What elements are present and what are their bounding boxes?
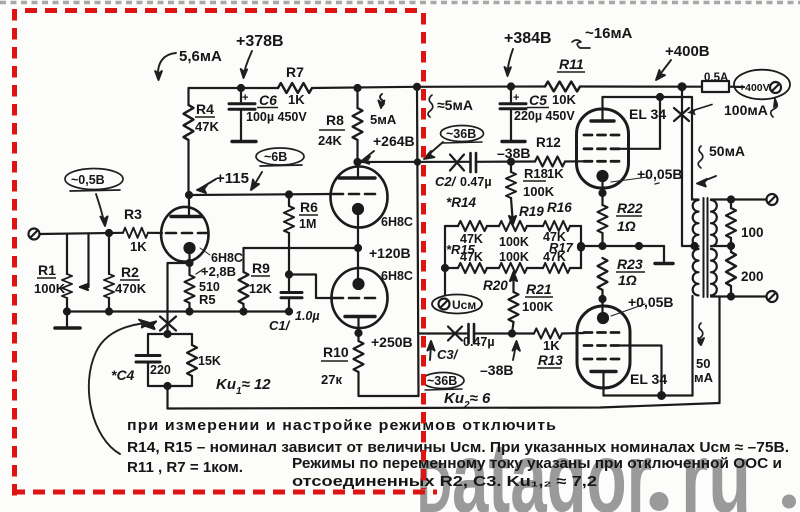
node y162-R8 bbox=[355, 159, 361, 165]
oval ~36B bottom bbox=[422, 373, 464, 389]
red frame right side bbox=[421, 13, 426, 489]
svg-text:1K: 1K bbox=[288, 92, 305, 107]
svg-text:EL 34: EL 34 bbox=[630, 371, 667, 387]
node secondary bottom bbox=[728, 294, 734, 300]
curved arrow 5,6mA bbox=[158, 53, 176, 77]
capacitor C5 220u 450V bbox=[510, 87, 512, 102]
V2b cathode wire bbox=[357, 317, 359, 342]
resistor 15K cathode bbox=[168, 334, 193, 345]
svg-text:C2/: C2/ bbox=[435, 174, 457, 189]
EL34-2 plate bar bbox=[591, 370, 616, 373]
wire R1 to ground rail bbox=[66, 298, 68, 312]
node rail R9 bbox=[241, 309, 247, 315]
pointer +2,8B bbox=[196, 268, 205, 274]
resistor network bottom chain bbox=[445, 267, 458, 269]
oval ~6B bbox=[256, 148, 304, 165]
squiggle 5mA left of C5 bbox=[428, 95, 433, 117]
red dashed frame bbox=[13, 9, 437, 496]
V2a anode wire bbox=[357, 162, 359, 178]
svg-text:R22: R22 bbox=[617, 200, 643, 216]
svg-text:1K: 1K bbox=[543, 338, 560, 353]
node rail-R8 bbox=[355, 85, 361, 91]
arrow ~36B to junction bbox=[427, 142, 443, 156]
pointer +0,05B upper bbox=[611, 177, 648, 182]
V2a cathode wire to +120B node bbox=[357, 213, 359, 280]
R1 wiper wire bbox=[80, 233, 89, 287]
terminal +400V bbox=[770, 82, 781, 93]
svg-text:+120B: +120B bbox=[369, 245, 411, 261]
fuse 0.5A bbox=[702, 81, 729, 92]
resistor R1 100K pot bbox=[62, 274, 72, 298]
R18 wiper wire to chain bbox=[511, 198, 513, 218]
V2b anode dot bbox=[354, 279, 364, 289]
node network right bbox=[578, 245, 584, 251]
arrow from +378B to rail bbox=[244, 51, 253, 76]
svg-text:R12: R12 bbox=[536, 135, 561, 150]
arrow +384B down bbox=[508, 49, 514, 73]
svg-text:27к: 27к bbox=[321, 372, 342, 387]
+400V hand-drawn oval bbox=[734, 70, 790, 100]
node y246 mid bbox=[636, 243, 642, 249]
wire input to grid node bbox=[40, 233, 124, 234]
squiggle 50mA bbox=[698, 146, 703, 168]
red frame bottom side bbox=[13, 490, 437, 495]
svg-text:0.47µ: 0.47µ bbox=[460, 175, 492, 189]
svg-text:100: 100 bbox=[741, 225, 764, 240]
svg-text:100K: 100K bbox=[34, 281, 66, 296]
node C1 bottom rail bbox=[286, 309, 292, 315]
resistor R21 100K bbox=[509, 292, 519, 322]
EL34-2 grid dashes g2 bbox=[584, 344, 620, 347]
svg-text:50: 50 bbox=[696, 356, 710, 371]
node network left bbox=[442, 265, 448, 271]
svg-text:+2,8B: +2,8B bbox=[201, 264, 236, 279]
EL34-2 plate wire down bbox=[602, 372, 604, 396]
wire R4 to anode node V1 bbox=[187, 140, 189, 195]
svg-text:100µ 450V: 100µ 450V bbox=[246, 110, 307, 124]
underline ~36B bottom bbox=[425, 389, 462, 390]
resistor R6 1M bbox=[288, 195, 290, 207]
wire down to R1 bbox=[66, 234, 68, 274]
node y246 R22 bbox=[600, 243, 606, 249]
node y246 left bbox=[578, 243, 584, 249]
R18 wiper arrowhead bbox=[509, 216, 516, 225]
svg-text:100мА: 100мА bbox=[724, 102, 768, 118]
resistor R3 1K bbox=[123, 228, 148, 238]
node rail-fuse bbox=[679, 83, 686, 90]
svg-text:R11 , R7 = 1ком.: R11 , R7 = 1ком. bbox=[127, 460, 243, 476]
arrowhead pointing to X bbox=[143, 322, 156, 330]
V2a cathode dot bbox=[353, 204, 363, 214]
resistor R4 47K bbox=[184, 105, 194, 140]
svg-text:+115: +115 bbox=[216, 170, 249, 187]
EL34-1 grid dashes g2 bbox=[584, 147, 620, 150]
node cathode stub bbox=[187, 260, 193, 266]
svg-text:0.47µ: 0.47µ bbox=[463, 335, 495, 349]
svg-text:47K: 47K bbox=[460, 250, 483, 264]
resistor R10 27K bbox=[354, 341, 364, 372]
node rail-feedline bbox=[414, 84, 420, 90]
node y162-R18 bbox=[508, 159, 514, 165]
node C1 top bbox=[286, 272, 292, 278]
squiggle arrow 100mA right bbox=[771, 102, 778, 117]
terminal speaker top bbox=[767, 194, 778, 205]
node rail-C6 bbox=[238, 85, 244, 91]
pentode EL34 no.2 envelope bbox=[577, 306, 630, 388]
svg-text:Uсм: Uсм bbox=[452, 298, 476, 312]
svg-text:R21: R21 bbox=[526, 281, 552, 297]
svg-text:R20: R20 bbox=[483, 278, 508, 293]
oval ~36B top bbox=[441, 126, 484, 142]
svg-text:C1/: C1/ bbox=[269, 318, 291, 333]
svg-text:5,6мА: 5,6мА bbox=[179, 48, 222, 65]
svg-text:100K: 100K bbox=[499, 235, 529, 249]
svg-text:+378B: +378B bbox=[236, 33, 284, 50]
arrow +264B to node bbox=[364, 151, 374, 159]
V1 cathode dot bbox=[185, 243, 195, 253]
resistor R5 510 bbox=[185, 275, 195, 303]
svg-text:6Н8С: 6Н8С bbox=[381, 215, 413, 229]
wire cathode common y246 bbox=[581, 245, 664, 247]
node R23 bottom bbox=[600, 296, 606, 302]
resistor R18 100K bbox=[510, 162, 512, 172]
node bottom wire bbox=[658, 392, 665, 399]
svg-text:5мА: 5мА bbox=[370, 112, 397, 127]
R21 wiper arrow bbox=[510, 272, 517, 281]
svg-text:1K: 1K bbox=[547, 166, 564, 181]
svg-text:мА: мА bbox=[694, 370, 714, 385]
resistor R8 24K bbox=[356, 88, 358, 108]
svg-text:при измерении и настройке режи: при измерении и настройке режимов отключ… bbox=[127, 418, 557, 434]
svg-text:R23: R23 bbox=[617, 256, 643, 272]
wire secondary bottom to rail bbox=[718, 297, 720, 404]
wire fuse to +400V terminal bbox=[729, 86, 744, 89]
big curved arrow annotation to X bbox=[89, 324, 142, 455]
wire anode/screen top y97 bbox=[603, 97, 693, 200]
svg-text:R16: R16 bbox=[547, 200, 572, 215]
resistor R22 1ohm bbox=[598, 205, 608, 233]
svg-text:+0,05B: +0,05B bbox=[637, 166, 683, 182]
arrow C3 area up bbox=[430, 345, 431, 360]
pointer line 6H8C-V1 bbox=[200, 248, 210, 255]
wire direct coupling y194 to V2a grid bbox=[189, 194, 332, 195]
terminal speaker bottom bbox=[767, 291, 778, 302]
V2a plate bar bbox=[339, 176, 375, 179]
arrow -38B up (near C3) bbox=[513, 345, 516, 360]
EL34-1 g2 wire to OPT bbox=[620, 97, 660, 149]
X mark 100mA measure point bbox=[674, 108, 689, 121]
V2a grid dashes bbox=[333, 193, 377, 196]
svg-text:R5: R5 bbox=[199, 292, 216, 307]
underline ~36B bbox=[443, 142, 482, 143]
wire R3 to V1 grid bbox=[148, 232, 162, 234]
svg-text:R7: R7 bbox=[286, 64, 304, 80]
svg-text:6Н8С: 6Н8С bbox=[381, 269, 413, 283]
node rail R5 bbox=[187, 309, 193, 315]
svg-text:*R14: *R14 bbox=[446, 195, 477, 210]
capacitor C4 220 bbox=[148, 334, 168, 354]
V2b cathode bar bbox=[345, 315, 375, 318]
red frame left side bbox=[12, 9, 17, 496]
capacitor C2 0.47u bbox=[469, 153, 472, 172]
node y162 feedline cross bbox=[415, 159, 420, 164]
primary wire stubs bbox=[692, 198, 699, 200]
resistor R13 1K bbox=[512, 332, 534, 334]
svg-text:+400B: +400B bbox=[665, 43, 710, 60]
X mark on y162 wire bbox=[450, 155, 464, 171]
svg-text:100K: 100K bbox=[523, 184, 555, 199]
underline ~0.5B bbox=[70, 190, 120, 191]
cathode stub wire to C4 branch bbox=[168, 263, 190, 334]
svg-text:+: + bbox=[513, 92, 519, 104]
arrow +400B to rail bbox=[658, 60, 671, 77]
EL34-1 grid dashes g1 bbox=[584, 134, 620, 137]
resistor 100 load bbox=[730, 200, 732, 209]
X mark on y333 wire bbox=[448, 327, 462, 341]
terminal Ucm bbox=[439, 299, 450, 310]
pointer +0,05B lower bbox=[611, 304, 645, 316]
resistor R7 1K (in rail) bbox=[278, 83, 312, 93]
capacitor C6 100u 450V bbox=[240, 88, 242, 102]
svg-text:R8: R8 bbox=[326, 112, 344, 128]
resistor R12 1K bbox=[535, 157, 565, 167]
svg-text:1.0µ: 1.0µ bbox=[295, 309, 320, 323]
X mark disconnect point bbox=[160, 317, 176, 331]
svg-text:+0,05B: +0,05B bbox=[628, 294, 674, 310]
V1 anode plate bar bbox=[171, 215, 202, 218]
node input-R2 bbox=[106, 230, 112, 236]
B+ wire rail to OPT center tap bbox=[682, 87, 697, 246]
wire R9 top to +120B node bbox=[244, 247, 359, 249]
svg-text:C5: C5 bbox=[529, 92, 547, 108]
svg-text:R6: R6 bbox=[300, 199, 318, 215]
V2b grid dashes bbox=[333, 297, 377, 300]
svg-text:C3/: C3/ bbox=[437, 347, 459, 362]
svg-text:0.5A: 0.5A bbox=[704, 72, 728, 84]
node C4 bottom bbox=[165, 383, 171, 389]
svg-text:1Ω: 1Ω bbox=[617, 218, 636, 234]
node y194-R6 bbox=[286, 192, 292, 198]
svg-text:1Ω: 1Ω bbox=[618, 272, 637, 288]
triode V1 6H8C envelope bbox=[161, 207, 208, 262]
svg-text:~36B: ~36B bbox=[427, 374, 457, 388]
secondary top wire to terminal bbox=[711, 198, 767, 200]
svg-text:R2: R2 bbox=[121, 264, 139, 280]
svg-text:100K: 100K bbox=[522, 299, 554, 314]
EL34-2 cathode dot bbox=[598, 313, 608, 323]
node C4 top bbox=[165, 331, 171, 337]
wire C4 bottom to feedback rail bbox=[166, 386, 168, 409]
svg-text:6Н8С: 6Н8С bbox=[211, 251, 243, 265]
oval ~0.5B bbox=[65, 169, 123, 190]
underline ~6B bbox=[260, 165, 302, 166]
wire rail R11 to fuse node bbox=[580, 85, 702, 87]
svg-text:R13: R13 bbox=[538, 353, 563, 368]
pentode EL34 no.1 envelope bbox=[577, 109, 629, 188]
resistor network top chain bbox=[445, 225, 458, 227]
B+ feed vertical wire x417 bbox=[417, 87, 419, 396]
arrow +115 right bbox=[253, 172, 262, 187]
svg-text:отсоединенных R2, C3. Ku₁,₂ ≈: отсоединенных R2, C3. Ku₁,₂ ≈ 7,2 bbox=[292, 474, 597, 490]
arrow 50mA to feed wire bbox=[701, 176, 716, 182]
squiggle 5mA near R8 bbox=[380, 94, 384, 106]
svg-text:R19: R19 bbox=[519, 204, 544, 219]
resistor R2 470K bbox=[108, 233, 110, 274]
wire top B+ rail bbox=[189, 88, 279, 105]
svg-text:R14, R15 – номинал зависит от: R14, R15 – номинал зависит от величины U… bbox=[127, 440, 789, 456]
capacitor C1 1.0u bbox=[281, 291, 302, 294]
svg-text:1K: 1K bbox=[130, 239, 147, 254]
svg-text:24K: 24K bbox=[318, 133, 342, 148]
EL34-2 grid dashes g1 bbox=[584, 331, 620, 334]
svg-text:~36B: ~36B bbox=[446, 127, 476, 141]
svg-text:+: + bbox=[242, 92, 248, 104]
svg-text:~0,5B: ~0,5B bbox=[71, 173, 105, 187]
svg-text:+400V: +400V bbox=[739, 82, 770, 94]
svg-text:+384B: +384B bbox=[504, 30, 552, 47]
scan artifact dotted line top edge bbox=[0, 1, 800, 5]
EL34-1 grid dashes g3 bbox=[584, 160, 620, 163]
V1 anode wire bbox=[188, 195, 190, 217]
svg-text:C6: C6 bbox=[259, 92, 277, 108]
arrow +115 left bbox=[201, 179, 216, 188]
svg-text:10K: 10K bbox=[552, 92, 576, 107]
svg-text:1M: 1M bbox=[299, 217, 316, 231]
network right vertical bbox=[580, 226, 582, 268]
node primary CT bbox=[692, 243, 698, 249]
svg-text:EL 34: EL 34 bbox=[629, 106, 666, 122]
svg-text:15K: 15K bbox=[198, 354, 221, 368]
R1 wiper arrowhead bbox=[80, 284, 88, 290]
red frame top side bbox=[25, 8, 424, 13]
svg-text:R4: R4 bbox=[196, 101, 214, 117]
wire interstage y162 bbox=[358, 161, 469, 163]
Ucm oval bbox=[432, 295, 482, 314]
svg-text:–38B: –38B bbox=[480, 362, 513, 378]
triode V2b 6H8C envelope bbox=[332, 268, 388, 328]
output transformer secondary winding bbox=[711, 200, 717, 246]
ground stub right bbox=[663, 246, 665, 262]
resistor 200 load bbox=[726, 252, 736, 286]
svg-text:47K: 47K bbox=[543, 250, 566, 264]
svg-text:~16мА: ~16мА bbox=[585, 25, 633, 42]
network left vertical bbox=[444, 226, 446, 295]
arrow ~0.5B to grid node bbox=[96, 194, 104, 222]
svg-text:R1: R1 bbox=[38, 262, 56, 278]
transformer core bbox=[703, 198, 705, 297]
resistor R11 10K (in rail) bbox=[545, 82, 580, 92]
node EL34-1 cathode bbox=[600, 190, 606, 196]
wire R12 to EL34 grid bbox=[565, 160, 584, 162]
svg-text:R18: R18 bbox=[524, 166, 548, 181]
EL34-1 anode wire up bbox=[601, 97, 603, 121]
wire grid2 y333 from feed bbox=[419, 332, 467, 334]
node +120B bbox=[355, 245, 361, 251]
ground symbol bbox=[66, 312, 68, 328]
secondary mid tap wire bbox=[711, 245, 731, 247]
EL34-1 cathode wire bbox=[601, 180, 603, 205]
svg-text:100K: 100K bbox=[499, 250, 529, 264]
svg-text:*C4: *C4 bbox=[111, 367, 135, 383]
node secondary top tap bbox=[728, 197, 734, 203]
squiggle 16mA bbox=[572, 40, 590, 48]
svg-text:+264B: +264B bbox=[373, 133, 415, 149]
capacitor C3 0.47u bbox=[467, 324, 470, 343]
svg-text:220: 220 bbox=[150, 363, 171, 377]
EL34-1 plate bar bbox=[591, 119, 614, 122]
svg-text:R10: R10 bbox=[323, 344, 349, 360]
V1 grid dashes bbox=[166, 232, 208, 235]
EL34-2 grid dashes g3 bbox=[584, 358, 620, 361]
V1 cathode wire bbox=[188, 252, 190, 275]
node V2b cathode bbox=[356, 330, 362, 336]
EL34-1 cathode dot bbox=[598, 171, 608, 181]
node R13-R21 bbox=[509, 331, 515, 337]
squiggle 50mA transformer bottom bbox=[698, 323, 703, 345]
wire R10 bottom bbox=[359, 372, 419, 396]
svg-text:R9: R9 bbox=[252, 260, 270, 276]
svg-text:≈5мА: ≈5мА bbox=[437, 97, 473, 113]
input terminal bbox=[29, 229, 40, 240]
node mid tap bbox=[728, 243, 734, 249]
resistor R23 1ohm bbox=[598, 258, 608, 290]
pointer line 100mA bbox=[691, 105, 712, 112]
ground rail left section bbox=[67, 310, 289, 312]
wire rail R7 to R11 bbox=[312, 87, 545, 89]
node R1 bottom bbox=[64, 309, 70, 315]
wire C1 node to V2b grid bbox=[289, 275, 333, 299]
svg-text:R11: R11 bbox=[559, 56, 584, 72]
watermark batagor.ru bbox=[417, 421, 796, 512]
svg-text:12K: 12K bbox=[249, 282, 272, 296]
svg-text:220µ 450V: 220µ 450V bbox=[514, 109, 575, 123]
svg-text:200: 200 bbox=[741, 269, 764, 284]
node V1 anode bbox=[186, 192, 192, 198]
node R2 bottom bbox=[106, 309, 112, 315]
svg-text:~6B: ~6B bbox=[264, 150, 287, 164]
svg-text:R3: R3 bbox=[124, 206, 142, 222]
node y97 bbox=[657, 94, 663, 100]
wire OPT primary bottom down bbox=[691, 296, 693, 396]
svg-text:50мА: 50мА bbox=[709, 143, 745, 159]
node rail-C5 bbox=[508, 84, 514, 90]
EL34-2 g2 wire down bbox=[620, 346, 662, 396]
resistor R9 12K bbox=[242, 248, 244, 272]
svg-text:470K: 470K bbox=[115, 281, 147, 296]
feedback rail bottom bbox=[168, 403, 720, 409]
secondary bottom wire to terminal bbox=[711, 295, 767, 297]
svg-text:–38B: –38B bbox=[497, 145, 530, 161]
wire EL34-2 anode bottom bbox=[604, 394, 693, 396]
small cross +0,05B upper bbox=[655, 183, 659, 184]
output transformer primary winding bbox=[693, 200, 699, 246]
svg-text:Режимы по переменному току ука: Режимы по переменному току указаны при о… bbox=[292, 456, 782, 472]
triode V2a 6H8C envelope bbox=[331, 167, 388, 228]
svg-text:+250B: +250B bbox=[371, 334, 413, 350]
svg-text:47K: 47K bbox=[195, 119, 219, 134]
